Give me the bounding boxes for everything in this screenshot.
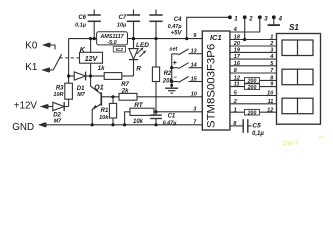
wire IC1 pin 5 to S1 pin 10 xyxy=(230,95,277,97)
resistor 1k label xyxy=(98,66,105,72)
display S1 label xyxy=(289,23,299,32)
IC1 pin 13 label xyxy=(191,49,197,55)
capacitor C7 xyxy=(127,10,140,41)
capacitor C1 xyxy=(150,112,162,125)
button set xyxy=(172,49,189,55)
svg-text:0,47µ: 0,47µ xyxy=(168,24,183,30)
display S1 digit 2 xyxy=(282,69,313,85)
IC1 pin 5 label xyxy=(234,91,238,97)
node D1 anode xyxy=(67,74,70,77)
LED arrows xyxy=(137,47,146,57)
node +5V riser xyxy=(185,37,188,40)
wire D1 anode xyxy=(69,75,75,77)
svg-text:IC2: IC2 xyxy=(116,47,124,52)
svg-text:3: 3 xyxy=(264,17,268,23)
wire Q1 emitter to ground xyxy=(91,109,93,125)
terminal K1 label xyxy=(25,62,37,73)
IC1 pin 16 label xyxy=(234,61,241,67)
svg-text:200: 200 xyxy=(247,85,257,91)
S1 pin 7 label xyxy=(270,68,274,74)
S1 pin 1 label xyxy=(270,35,273,41)
svg-text:12: 12 xyxy=(267,107,273,113)
resistor R3 xyxy=(65,83,73,99)
regulator IC2 AMS1117 xyxy=(97,32,128,46)
header pin 1 xyxy=(228,15,238,22)
svg-text:R3: R3 xyxy=(56,85,64,91)
header pin 4 xyxy=(272,15,283,22)
wire IC1 pin 4 to header pin3 xyxy=(230,17,260,32)
svg-text:C5: C5 xyxy=(252,123,261,130)
IC1 pin 20 label xyxy=(233,41,240,47)
ground rail wire (GND to IC1 pin 7) xyxy=(50,124,202,126)
IC1 pin 18 label xyxy=(234,35,241,41)
svg-text:+12V: +12V xyxy=(14,101,38,112)
button plus xyxy=(172,63,189,69)
relay K label xyxy=(80,47,86,54)
svg-text:R: R xyxy=(136,66,141,73)
svg-text:3: 3 xyxy=(193,107,196,113)
node D1 cathode / collector xyxy=(89,74,92,77)
IC1 pin 7 label xyxy=(193,120,197,126)
wire IC1 pin 16 to S1 pin 5 xyxy=(230,65,277,67)
transistor Q1 emitter lead xyxy=(92,104,101,110)
svg-text:−: − xyxy=(173,75,177,81)
IC1 pin 12 label xyxy=(234,76,240,82)
terminal GND label xyxy=(12,122,34,133)
watermark xyxy=(283,135,324,147)
LED label xyxy=(136,42,149,49)
svg-text:1: 1 xyxy=(234,17,238,23)
capacitor C6 xyxy=(88,10,101,41)
regulator IC2 label box xyxy=(113,46,125,52)
svg-text:18: 18 xyxy=(234,35,241,41)
wire R7 to IC1 pin 10 xyxy=(137,96,202,98)
IC1 box xyxy=(202,31,230,130)
button common rail xyxy=(171,54,173,86)
transistor Q1 base bar xyxy=(100,92,102,105)
IC1 pin 9 label xyxy=(193,33,197,39)
svg-text:R1: R1 xyxy=(101,108,109,114)
svg-text:K1: K1 xyxy=(25,62,37,73)
relay contact blade K xyxy=(53,54,61,70)
svg-text:10: 10 xyxy=(191,92,197,98)
resistor R1 xyxy=(109,97,116,125)
node LED anode rail xyxy=(132,37,135,40)
IC1 label xyxy=(210,33,222,42)
svg-text:17: 17 xyxy=(234,54,241,60)
S1 pin 11 label xyxy=(268,99,274,105)
svg-text:C4: C4 xyxy=(174,17,182,23)
wire +5V rail xyxy=(128,38,203,40)
node coil-rail junction xyxy=(89,37,92,40)
svg-text:11: 11 xyxy=(268,99,274,105)
display S1 digit 1 xyxy=(282,40,313,56)
svg-text:+: + xyxy=(173,60,177,67)
svg-text:C6: C6 xyxy=(78,15,86,21)
header pin 2 xyxy=(243,15,254,22)
button set label xyxy=(169,46,178,52)
svg-text:GND: GND xyxy=(12,122,34,133)
wire IC1 pin 15 xyxy=(189,81,203,83)
IC1 pin 8 label xyxy=(234,68,238,74)
wire IC1 pin 8 xyxy=(230,125,243,127)
resistor 1k xyxy=(104,73,122,80)
wire relay coil bottom xyxy=(90,63,92,76)
resistor R2 xyxy=(152,67,159,82)
svg-text:12: 12 xyxy=(234,76,240,82)
svg-text:20: 20 xyxy=(233,41,240,47)
diode D2 label xyxy=(53,112,62,124)
node C1 ground xyxy=(154,123,157,126)
svg-text:4: 4 xyxy=(233,27,237,33)
svg-text:C1: C1 xyxy=(168,114,176,120)
svg-text:M7: M7 xyxy=(54,119,63,125)
svg-text:0,1µ: 0,1µ xyxy=(252,131,264,137)
capacitor C6 label xyxy=(75,15,87,28)
svg-text:R2: R2 xyxy=(164,71,172,77)
svg-text:1k: 1k xyxy=(98,66,105,72)
thermistor RT value xyxy=(133,119,144,125)
svg-text:K0: K0 xyxy=(25,40,38,51)
svg-text:10R: 10R xyxy=(53,92,63,98)
svg-text:ru: ru xyxy=(319,135,324,141)
wire IC1 pin 19 to S1 pin 3 xyxy=(230,51,277,53)
S1 pin 9 label xyxy=(270,82,274,88)
wire LED cathode xyxy=(133,60,135,76)
svg-text:C7: C7 xyxy=(119,15,127,21)
relay mechanical dashed link xyxy=(60,57,80,59)
wire relay coil top xyxy=(90,39,92,53)
svg-text:0,47µ: 0,47µ xyxy=(163,120,178,126)
wire +5V riser xyxy=(187,17,230,38)
wire +12V rail xyxy=(69,38,97,40)
svg-text:13: 13 xyxy=(191,49,197,55)
wire IC1 pin 12 to S1 pin 8 xyxy=(230,78,277,85)
svg-text:D2: D2 xyxy=(53,112,61,118)
wire header pin2 to pin18 net xyxy=(244,17,246,39)
LED D3 xyxy=(129,39,138,60)
transistor Q1 label xyxy=(94,85,103,92)
node pin18 junction xyxy=(243,38,246,41)
svg-text:4: 4 xyxy=(278,17,283,23)
svg-text:16: 16 xyxy=(234,61,241,67)
svg-text:3: 3 xyxy=(270,48,273,54)
svg-text:DN-Y: DN-Y xyxy=(283,140,300,147)
svg-text:-5.0: -5.0 xyxy=(107,40,116,46)
transistor Q1 collector lead xyxy=(91,86,102,94)
svg-text:IC1: IC1 xyxy=(210,33,222,42)
capacitor C5 xyxy=(243,119,251,133)
svg-text:2: 2 xyxy=(248,17,253,23)
IC1 pin 14 label xyxy=(191,63,197,69)
LED ref label R xyxy=(136,66,141,73)
wire 1k left xyxy=(91,75,105,77)
thermistor RT xyxy=(125,108,156,125)
node button plus xyxy=(170,66,173,69)
terminal +12V arrow xyxy=(40,104,52,110)
terminal +12V label xyxy=(14,101,38,112)
capacitor C4 xyxy=(149,10,162,41)
button minus label xyxy=(173,75,177,81)
node Q1 emitter ground xyxy=(91,123,94,126)
display S1 box xyxy=(277,34,321,125)
wire IC1 pin 20 to S1 pin 2 xyxy=(230,45,277,47)
wire R2 bottom xyxy=(155,82,157,112)
terminal K1 arrow and wire xyxy=(42,67,54,73)
svg-text:10µ: 10µ xyxy=(117,22,127,28)
button minus xyxy=(172,77,189,83)
IC1 pin 3 label xyxy=(193,107,196,113)
svg-text:STM8S003F3P6: STM8S003F3P6 xyxy=(206,44,218,128)
IC1 part number STM8S003F3P6 xyxy=(206,44,218,128)
svg-text:12V: 12V xyxy=(85,56,99,63)
node Q1 base junction xyxy=(111,95,114,98)
svg-text:0,1µ: 0,1µ xyxy=(75,22,87,28)
svg-text:10k: 10k xyxy=(99,115,109,121)
node R1 ground xyxy=(111,123,114,126)
terminal GND arrow xyxy=(38,122,50,128)
wire IC1 pin 1 to S1 pin 12 xyxy=(230,109,277,116)
display S1 digit 3 xyxy=(282,98,313,114)
node button minus xyxy=(170,80,173,83)
wire R2 top xyxy=(155,39,157,67)
capacitor C7 label xyxy=(117,15,127,28)
S1 pin 12 label xyxy=(267,107,273,113)
diode D1 xyxy=(74,72,90,81)
svg-text:11: 11 xyxy=(234,82,240,88)
diode D2 xyxy=(53,102,69,111)
terminal K0 label xyxy=(25,40,38,51)
IC1 pin 17 label xyxy=(234,54,241,60)
IC1 pin 19 label xyxy=(234,48,241,54)
svg-text:15: 15 xyxy=(191,76,198,82)
wire IC1 pin 11 to S1 pin 9 xyxy=(230,84,277,91)
wire +12V riser (D2 to rail corner) xyxy=(68,39,70,107)
wire Q1 collector xyxy=(90,76,92,86)
wire IC1 pin 14 xyxy=(189,67,203,69)
node RT ground xyxy=(123,123,126,126)
S1 pin 8 label xyxy=(270,76,274,82)
S1 pin 3 label xyxy=(270,48,273,54)
resistor R2 label xyxy=(162,71,174,84)
IC1 pin 8 label xyxy=(233,121,237,127)
S1 pin 10 label xyxy=(267,91,273,97)
capacitor C5 label xyxy=(252,123,264,138)
svg-text:2: 2 xyxy=(269,41,273,47)
header pin 3 xyxy=(258,15,268,22)
resistor R7 xyxy=(119,93,137,100)
wire IC1 pin 17 to S1 pin 4 xyxy=(230,58,277,60)
resistor R1 label xyxy=(99,108,109,121)
svg-text:LED: LED xyxy=(136,42,149,49)
svg-text:set: set xyxy=(169,46,178,52)
svg-text:10: 10 xyxy=(267,91,273,97)
svg-text:S1: S1 xyxy=(289,23,299,32)
IC1 pin 11 label xyxy=(234,82,240,88)
capacitor C4 label xyxy=(168,17,183,30)
ground symbol buttons xyxy=(165,84,178,93)
button plus label xyxy=(173,60,177,67)
resistor R7 label xyxy=(121,82,130,94)
IC1 pin 1 label xyxy=(234,107,237,113)
S1 pin 5 label xyxy=(270,61,274,67)
relay coil K 12V box xyxy=(80,52,103,63)
svg-text:2: 2 xyxy=(233,99,237,105)
S1 pin 4 label xyxy=(269,54,273,60)
terminal K0 arrow and wire xyxy=(42,42,55,49)
header pin 4 ground bar xyxy=(268,17,280,25)
svg-text:R7: R7 xyxy=(121,82,129,88)
resistor R3 label xyxy=(53,85,64,98)
capacitor C1 label xyxy=(163,114,178,127)
wire Q1 base xyxy=(101,96,119,98)
wire IC1 pin 2 to S1 pin 11 xyxy=(230,103,277,105)
wire IC1 pin 18 to S1 pin 1 xyxy=(230,39,277,41)
IC1 pin 4 label xyxy=(233,27,237,33)
wire 1k to LED xyxy=(122,75,134,77)
svg-text:1: 1 xyxy=(270,35,273,41)
svg-text:M7: M7 xyxy=(77,92,86,98)
net +5V label xyxy=(171,31,183,37)
thermistor RT label xyxy=(134,102,144,109)
svg-text:14: 14 xyxy=(191,63,197,69)
svg-text:1: 1 xyxy=(234,107,237,113)
diode D1 label xyxy=(77,86,86,98)
wire IC1 pin 13 xyxy=(189,53,203,55)
svg-text:10k: 10k xyxy=(133,119,144,125)
IC1 pin 10 label xyxy=(191,92,197,98)
svg-text:200: 200 xyxy=(247,110,257,116)
node pin3 junction xyxy=(154,110,157,113)
IC1 pin 2 label xyxy=(233,99,237,105)
wire IC1 pin 3 xyxy=(156,111,202,113)
svg-text:19: 19 xyxy=(234,48,241,54)
wire IC1 pin 8 to S1 pin 7 xyxy=(230,72,277,74)
S1 pin 2 label xyxy=(269,41,273,47)
IC1 pin 15 label xyxy=(191,76,198,82)
svg-text:4: 4 xyxy=(269,54,273,60)
svg-text:+5V: +5V xyxy=(171,31,183,37)
